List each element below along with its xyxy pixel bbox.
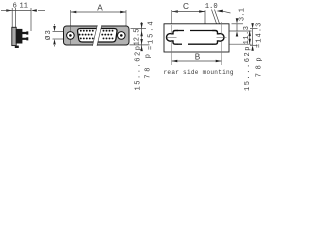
dim 3.1 extension y24 [232, 23, 244, 25]
dim 3.1 line outside arrows [236, 24, 238, 31]
cutout bottom edge segments [178, 43, 183, 45]
mount nub below flange [15, 46, 19, 48]
extension line A left [70, 10, 72, 26]
dim line 6/11 [12, 10, 31, 12]
front shell [64, 26, 130, 45]
centerline right notch [221, 22, 223, 34]
horiz tick left notch [167, 36, 177, 38]
svg-text:78 p: 78 p [144, 51, 152, 78]
dim 12.5/15.4 extension bottom [130, 44, 150, 46]
svg-text:78p: 78p [256, 54, 264, 77]
svg-text:1.0: 1.0 [205, 3, 218, 11]
svg-text:15...62p: 15...62p [135, 44, 143, 90]
dim 11.3 line w arrows [249, 31, 251, 45]
dim C line [172, 11, 205, 13]
dim C right arrow [199, 10, 205, 12]
flange [12, 27, 16, 45]
svg-text:11: 11 [20, 3, 28, 11]
extension line x15.5 [15, 8, 17, 27]
extension y31 [229, 30, 252, 32]
extension y44 [229, 43, 252, 45]
svg-text:B: B [195, 52, 201, 61]
extension line x12 [11, 8, 13, 27]
centerline left notch [171, 10, 173, 24]
dim 14.3 line outside arrows [252, 29, 254, 46]
dim 6/11 arrow right [31, 9, 37, 11]
svg-text:6: 6 [13, 3, 17, 11]
break band front [93, 25, 102, 46]
right mounting hole [118, 32, 126, 40]
rear outer rect [164, 24, 229, 52]
leader diagonal 2 [215, 10, 220, 24]
cutout top edge segments [178, 30, 185, 32]
svg-text:15...62p: 15...62p [244, 45, 252, 91]
svg-text:12.5: 12.5 [134, 29, 142, 46]
svg-text:=15.4: =15.4 [147, 20, 155, 51]
dim B line [172, 60, 222, 62]
rear cutout outline [167, 31, 178, 45]
dim A right arrow [120, 11, 126, 13]
dim B right arrow [216, 60, 222, 62]
break line right [97, 25, 102, 46]
dim A line [71, 11, 127, 13]
connector body [16, 29, 22, 43]
dia3 extension line bottom [53, 38, 68, 40]
extension line A right [125, 10, 127, 26]
svg-text:A: A [97, 4, 103, 13]
leader diagonal 1 [212, 10, 217, 24]
dim 12.5 extension top [131, 28, 147, 30]
pins [79, 30, 114, 40]
svg-text:rear side mounting: rear side mounting [164, 69, 234, 76]
break line left [93, 25, 98, 46]
upper tab [22, 31, 28, 34]
dia3 dim line bottom arrow [53, 39, 56, 45]
dim C left arrow [172, 10, 178, 12]
centerline through left hole [70, 26, 72, 45]
extension line x31 [30, 8, 32, 31]
dia3 dim line top arrow [53, 26, 56, 32]
extension C right [204, 10, 206, 24]
lower tab [22, 37, 28, 40]
shared dim column arrows [141, 22, 143, 51]
horiz tick right notch [217, 36, 227, 38]
dia3 extension line top [53, 31, 68, 33]
dim B left arrow [172, 60, 178, 62]
dim A left arrow [71, 11, 77, 13]
svg-text:=14.3: =14.3 [255, 22, 263, 49]
dim 6/11 arrow left [6, 9, 12, 11]
D insert [78, 29, 117, 43]
dim 14.3 extensions [250, 28, 258, 30]
svg-text:3.1: 3.1 [238, 8, 246, 21]
svg-text:11.3: 11.3 [243, 26, 251, 45]
left mounting hole [67, 32, 75, 40]
leader arrow [217, 10, 223, 13]
svg-text:Ø3: Ø3 [44, 29, 53, 40]
svg-text:C: C [183, 2, 189, 11]
